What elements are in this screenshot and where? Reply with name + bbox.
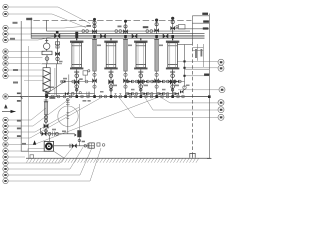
rotary gas meter box	[48, 135, 50, 141]
leader lines to right callouts	[118, 61, 219, 117]
label PZV at boundary	[26, 18, 32, 20]
top-right outgoing lines and labels 203/204/305	[173, 14, 210, 159]
meter bypass chain x=68	[66, 98, 70, 134]
outlet collector pipe with flange circles	[8, 96, 209, 98]
leader fan from bottom-left callouts	[8, 97, 160, 182]
regulator columns R1-R3	[92, 38, 159, 96]
dimension lines 175/63 top right	[192, 44, 203, 67]
flow arrow on leader	[33, 140, 36, 145]
dimension verticals lower-left	[20, 21, 22, 152]
inlet gate valve cluster	[54, 31, 60, 39]
manifold row B with valves	[47, 92, 179, 96]
bypass pipe verticals	[56, 64, 58, 97]
leader lines from left callouts	[8, 7, 90, 76]
sampling line and valves right side	[177, 45, 192, 93]
safety valve box PSK	[179, 25, 186, 30]
vent risers with handwheel valves	[92, 17, 175, 34]
inlet riser wire x=31	[30, 18, 32, 39]
filter box on metering branch	[75, 134, 77, 137]
main gas manifold (pipe bundle)	[31, 34, 204, 39]
north arrow symbol	[4, 104, 7, 108]
gas heater (coil)	[43, 64, 50, 97]
outlet metering line with valves	[54, 145, 95, 147]
leader labels bottom left	[17, 120, 21, 122]
filter vessels F1-F4	[70, 38, 179, 96]
gas meter circle	[58, 106, 78, 126]
misc component labels	[93, 35, 174, 38]
bypass fitting box	[83, 71, 88, 75]
dimension labels 100/600	[17, 93, 21, 95]
gas flow arrow	[2, 111, 16, 113]
tiny labels near left circles	[13, 22, 18, 24]
pressure regulator with gauge PI	[24, 38, 62, 80]
metering line y=134	[41, 133, 75, 135]
dimension line 1398	[185, 68, 210, 70]
bypass valve handwheels on upper line	[82, 30, 153, 33]
collector pipe junctions	[45, 95, 210, 98]
riser labels	[87, 25, 92, 27]
pipe shut-off valves on manifold	[75, 32, 168, 39]
callout number labels	[4, 6, 223, 182]
right callout circles 23-28	[218, 59, 225, 120]
manifold row A with valves	[47, 75, 185, 94]
pipe support stand	[190, 153, 195, 157]
left callout circles 1-22	[3, 4, 8, 183]
bypass filter chain x=46	[44, 98, 49, 134]
site boundary dashed line	[33, 19, 154, 21]
ground line with hatching	[26, 157, 211, 159]
